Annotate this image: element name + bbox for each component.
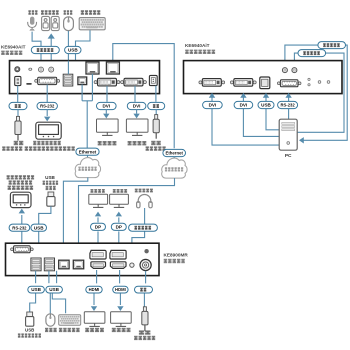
connector HDMI out 2 (HDMI) [110,262,126,269]
svg-text:PC: PC [285,153,292,159]
wire DP1 port line inside panel [97,243,99,250]
label audio (rear) text (greeked Japanese text) [37,48,54,52]
wire PC audio out to front jack [294,53,344,132]
svg-text:USB: USB [25,328,34,333]
network cloud B [162,158,187,178]
label pill HDMI 2 [113,286,128,293]
label pill USB below 2 [46,286,63,293]
wire merged line to Ethernet A [86,101,88,148]
power adapter plug rear power adapter [15,116,21,140]
arrow into speaker [48,33,55,38]
wire DP1 pill to monitor [97,217,99,222]
hardware/software controller for receiver RS-232 [10,192,31,207]
label headphone label (greeked Japanese text) [135,189,153,193]
panel KE6940AiT rear (transmitter) [10,61,160,94]
wire DP2 port line inside panel [118,243,120,250]
wire front DVI1 to PC [212,97,279,146]
wire HDMI1 to pill [96,270,98,283]
wire DP2 port to pill [118,231,120,243]
wire RS-232 pill to controller [46,110,48,116]
label pill power (rear right) [148,102,165,109]
label network (cloud B) (greeked Japanese text) [165,167,183,171]
svg-text:DP: DP [95,224,101,229]
reset slot [26,83,32,85]
svg-text:USB: USB [34,225,44,230]
svg-text:DVI: DVI [209,103,217,108]
wire USB stack2b to pill [56,271,58,283]
label receiver rear panel label (greeked Japanese text) [164,259,185,263]
label flash label (greeked Japanese text) [43,181,59,185]
label audio receiver text (greeked Japanese text) [134,226,151,230]
wire receiver DB9 to RS-232 pill [21,232,23,244]
label pill USB (rear top) [65,46,81,53]
label kiboodo (keyboard) (greeked Japanese text) [81,10,101,15]
connector USB-B (front) [260,77,270,89]
audio jack (receiver) [130,263,134,267]
panel KE8900MR rear (receiver) [6,243,160,275]
connector RS-232 port (receiver) (DB9 RS-232) [11,246,34,253]
label pill USB receiver top [31,224,47,231]
audio jack speaker (rear) [49,67,54,72]
connector LINK2 port (rear) (RJ45) [106,62,119,74]
wire power out to pill [155,86,157,102]
wire USB stack1 to pill [35,271,37,283]
wire power pill to adapter plug [17,110,19,117]
label controller label (greeked Japanese text) [8,186,33,190]
wire pill to keyboard [52,293,65,314]
monitor bottom monitor 2 [111,312,132,327]
label pill RS-232 (rear) [37,102,57,109]
wire rear LINK2 port to Ethernet network B [113,44,174,149]
label memori label (greeked Japanese text) [46,186,56,190]
arrow into controller 2 [19,209,25,214]
arrow into front DVI2 [240,93,246,98]
wire RS-232 to pill [46,85,48,103]
label front panel label (greeked Japanese text) [185,50,215,54]
small indicator [29,68,32,70]
svg-text:DVI: DVI [133,104,141,109]
USB flash drive receiver top flash [47,192,55,206]
DC power jack (receiver) [140,259,151,270]
wire HDMI2 to pill [119,270,121,283]
label pill RS-232 front [278,101,298,108]
panel KE6940AiT front (local console) [184,61,343,94]
monitor rear monitor 2 [126,119,148,135]
label pill DP 2 [111,223,126,230]
label hardware/ (greeked Japanese text) [33,141,61,145]
wire cloud A to receiver LAN1 [63,177,87,259]
arrow into monitor 3 [95,212,101,217]
wire DVI2 pill to monitor [136,110,138,114]
wire DC jack to power pill [145,271,147,284]
audio jack 2 (front) [292,68,297,73]
connector DVI-D out 2 (rear) (DVI) [121,78,147,86]
wire cloud A line inside receiver [62,243,64,259]
LED (receiver) [144,249,148,253]
monitor receiver monitor 1 [89,194,108,207]
label software controller (greeked Japanese text) [25,146,75,150]
connector HDMI out 1 (HDMI) [91,262,106,269]
wire LINK1 port down [91,74,93,101]
connector LAN1 (receiver) (RJ45) [59,260,69,269]
label monitor 6 label (greeked Japanese text) [112,328,131,332]
hardware/software controller for rear RS-232 [36,122,61,139]
arrow into front USB [263,93,269,98]
connector DVI-D in 1 (front) (DVI) [199,79,225,87]
label keyboard 2 label (greeked Japanese text) [59,328,80,332]
connector LINK1 port (rear) (RJ45) [86,62,99,74]
wire power pill to adapter 3 [143,293,145,307]
arrow into front jack [292,62,298,66]
label mouse 2 label (greeked Japanese text) [45,328,57,332]
svg-text:RS-232: RS-232 [40,104,55,109]
network cloud A [75,158,100,178]
label supika (speakers) (greeked Japanese text) [41,10,59,15]
label power receiver text (greeked Japanese text) [140,288,146,292]
svg-text:KE6940AiT: KE6940AiT [1,44,26,49]
wire keyboard to USB port [76,30,91,74]
svg-text:Ethernet: Ethernet [79,149,97,154]
svg-text:Ethernet: Ethernet [165,151,183,156]
svg-text:DP: DP [116,224,122,229]
label network (cloud A) (greeked Japanese text) [78,167,96,171]
label pill RS-232 receiver [9,224,30,231]
label pill DVI front 2 [234,101,253,108]
label dengen (power) 2 (greeked Japanese text) [151,141,161,145]
svg-text:USB: USB [45,175,55,180]
label adapter 3 label (greeked Japanese text) [134,336,155,340]
keyboard icon 2 [59,315,81,325]
connector DVI-D in 2 (front) (DVI) [230,79,256,87]
wire cloud B line inside receiver [78,243,80,259]
arrow into monitor 6 [117,306,123,311]
wire DVI2 to pill [134,86,136,102]
wire power inlet to power pill [17,86,19,103]
wire HDMI pill to monitor 6 [119,293,121,305]
svg-text:RS-232: RS-232 [12,225,27,230]
arrow into monitor 4 [116,212,122,217]
wire DVI1 to pill [106,86,108,102]
svg-text:USB: USB [261,103,271,108]
label pill DVI 2 (rear) [127,102,146,109]
wire USB stack2a to pill [48,271,50,283]
monitor rear monitor 1 [97,119,119,135]
label power (rear right) text (greeked Japanese text) [153,104,159,108]
arrow into mic jack [38,63,44,67]
connector DVI-D out 1 (rear) (DVI) [94,78,120,86]
label power 3 label (greeked Japanese text) [139,330,151,334]
svg-text:USB: USB [49,287,59,292]
label pill DVI 1 (rear) [97,102,117,109]
power adapter plug rear right power adapter [153,115,159,139]
DC power out connector (rear right) [149,75,157,85]
label pill USB below 1 [28,286,45,293]
label pill DVI front 1 [203,101,223,108]
svg-text:USB: USB [68,48,78,53]
label pill audio receiver [129,224,158,231]
label pill Ethernet A [76,148,99,155]
svg-text:HDMI: HDMI [115,287,126,292]
wire speaker from audio-out jack [50,38,52,67]
wire merge bracket [82,100,92,102]
wire LAN port down [81,84,83,100]
wire DP2 pill to monitor [118,217,120,222]
arrow into monitor 1 [103,114,109,119]
arrow into front RS-232 [285,93,291,98]
label pill Ethernet B [163,149,186,156]
label flash memory label (greeked Japanese text) [18,333,41,337]
wire USB pill to flash drive [39,206,51,224]
arrow into monitor 2 [133,114,139,119]
label pill power receiver [135,286,153,293]
svg-text:DVI: DVI [102,104,110,109]
svg-text:HDMI: HDMI [89,287,100,292]
wire DVI1 pill to monitor [105,110,107,114]
label hardware/ label (greeked Japanese text) [7,175,35,179]
label audio front 2 text (greeked Japanese text) [303,51,320,55]
wire mouse to USB port [67,31,69,74]
label power (rear) text (greeked Japanese text) [15,104,21,108]
wire front mic jack to PC line-in [285,45,347,140]
label adaputaa (adapter) (greeked Japanese text) [2,146,22,150]
connector RS-232 (front) (DB9 RS-232) [277,80,301,87]
audio jack mic (rear) [39,67,44,72]
connector USB ports 2 (receiver) (stacked USB-A ports) [44,258,54,271]
svg-text:USB: USB [31,287,41,292]
label monitor 3 label (greeked Japanese text) [91,189,105,193]
mouse icon [64,17,74,31]
label adaputaa (adapter) 2 (greeked Japanese text) [146,146,166,150]
svg-text:KE8900MR: KE8900MR [164,252,189,257]
label pill audio front 1 [318,42,346,49]
label dengen (power) (greeked Japanese text) [14,141,24,145]
label audio front 1 text (greeked Japanese text) [323,43,340,47]
label software label (greeked Japanese text) [9,180,32,184]
svg-text:DVI: DVI [240,103,248,108]
USB flash drive receiver bottom flash [26,312,34,326]
connector USB console ports (rear) (stacked USB-A ports) [63,74,73,86]
wire front DVI2 to PC [243,97,279,137]
connector DP out 2 (DisplayPort) [110,250,126,259]
label pill HDMI 1 [86,286,102,293]
LED indicators (front) [308,78,330,86]
label pill USB front [258,101,274,108]
connector RS-232 port (rear) (DB9 RS-232) [35,77,60,84]
speaker icons (pair) [42,16,50,30]
wire pill A to cloud A [87,155,89,161]
wire receiver USB to pill [38,232,40,244]
wire audio pill to receiver jack [132,231,145,243]
arrow into monitor 5 [91,306,97,311]
label ria paneru (rear panel) (greeked Japanese text) [1,51,22,55]
wire pill to flash drive 2 [30,293,36,312]
wire pill B to cloud B [173,157,175,162]
svg-text:RS-232: RS-232 [280,103,295,108]
connector USB ports 1 (receiver) (stacked USB-A ports) [31,258,41,271]
svg-text:KE6940AiT: KE6940AiT [185,43,210,48]
power inlet (rear) [15,76,21,85]
label monitor 2 label (greeked Japanese text) [128,141,147,145]
power adapter plug receiver power adapter [142,307,148,331]
connector LAN2 (receiver) (RJ45) [73,260,83,269]
wire headphones to audio pill [144,208,146,224]
label monitor 1 label (greeked Japanese text) [98,141,117,145]
mouse icon 2 [46,314,55,326]
microphone icon [28,17,37,31]
wire audio line inside receiver [131,243,133,260]
label pill power (rear) [9,102,27,109]
wire front RS-232 to PC [288,97,290,120]
grounding screw [15,67,20,72]
arrow into controller [44,117,50,122]
arrow into front DVI1 [209,93,215,98]
wire HDMI pill to monitor 5 [93,293,95,305]
label monitor 5 label (greeked Japanese text) [85,328,104,332]
label pill DP 1 [91,223,106,230]
headphones icon [137,195,153,208]
monitor receiver monitor 2 [110,194,129,207]
wire pill to mouse [49,293,51,314]
connector LAN port (rear) (RJ45) [78,77,87,85]
connector DP out 1 (DisplayPort) [90,250,106,259]
keyboard icon [79,18,105,30]
wire microphone to audio-in jack [32,32,41,65]
arrow into PC [299,137,304,143]
PC tower [279,119,297,150]
wire DP1 port to pill [97,231,99,243]
label mausu (mouse) (greeked Japanese text) [64,10,73,15]
wire front USB to PC [266,97,279,130]
wire power pill to adapter [155,110,157,115]
wire RS-232 pill up [21,215,23,224]
label monitor 4 label (greeked Japanese text) [113,189,127,193]
label maiku (mic) (greeked Japanese text) [28,10,37,15]
wire USB pill line inside panel [67,61,69,75]
label pill audio (rear) [31,46,59,53]
monitor bottom monitor 1 [84,312,105,327]
label pill audio front 2 [298,50,326,57]
audio jack 1 (front) [282,68,287,73]
wire cloud B to receiver LAN2 [79,178,175,259]
